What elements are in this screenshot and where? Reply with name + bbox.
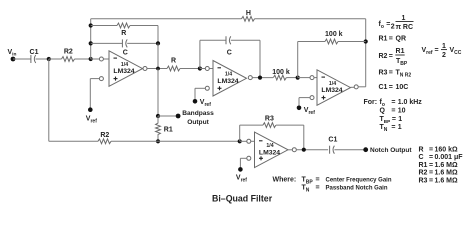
resistor R1 <box>156 123 161 135</box>
wire U3 plus input stub <box>299 97 310 99</box>
svg-text:=: = <box>389 53 393 60</box>
capacitor C (U2 feedback) <box>225 36 227 44</box>
op-amp U4 1/4 LM324 <box>255 132 289 168</box>
wire bubble to U3 edge <box>314 77 317 79</box>
resistor R3 (U4 feedback) <box>263 123 276 128</box>
resistor R2 (input) <box>62 57 75 62</box>
svg-text:R2: R2 <box>379 53 388 60</box>
wire C1 to node A <box>36 58 49 60</box>
node R-feedback left junction <box>89 23 93 27</box>
svg-text:LM324: LM324 <box>259 149 280 156</box>
wire C1 to notch terminal <box>334 149 363 151</box>
U3 inverting input bubble <box>310 76 314 80</box>
svg-text:Output: Output <box>187 119 209 126</box>
node Vref terminal (U1) <box>88 107 93 112</box>
U1 non-inverting input bubble <box>99 77 103 81</box>
formula R2 fraction bar <box>395 54 404 56</box>
op-amp U1 1/4 LM324 <box>109 51 143 87</box>
wire 100k to U3 minus junction <box>286 77 297 79</box>
node C-feedback right junction <box>156 41 160 45</box>
svg-text:=: = <box>429 146 433 153</box>
node Vin terminal <box>11 57 16 62</box>
wire bandpass tap stub <box>158 115 176 117</box>
svg-text:For:: For: <box>364 99 378 106</box>
wire H rail down to U3 output <box>365 19 367 87</box>
wire U2 feedback top left <box>200 39 226 41</box>
U2 non-inverting input bubble <box>205 86 209 90</box>
svg-text:=: = <box>316 184 320 191</box>
svg-text:R2: R2 <box>419 170 428 177</box>
wire U2 output to 100k <box>252 77 273 79</box>
wire bubble to U1 edge <box>104 58 110 60</box>
wire U3 feedback top right <box>338 41 366 43</box>
op-amp U2 1/4 LM324 <box>213 61 247 97</box>
resistor R (U1 feedback) <box>117 23 130 28</box>
wire R2 to node B <box>75 58 91 60</box>
svg-text:10: 10 <box>398 107 406 114</box>
svg-text:R1: R1 <box>379 35 388 42</box>
svg-text:R1: R1 <box>396 48 405 55</box>
svg-text:1.0 kHz: 1.0 kHz <box>398 99 423 106</box>
node U4 inverting junction <box>238 139 242 143</box>
wire bandpass tap to R1 <box>157 116 159 123</box>
wire R-feedback left lead <box>91 25 117 27</box>
svg-text:160 kΩ: 160 kΩ <box>435 146 459 153</box>
svg-text:R1: R1 <box>164 127 173 134</box>
svg-text:=: = <box>316 176 320 183</box>
svg-text:=: = <box>391 99 395 106</box>
wire down to Vref (U2) <box>194 88 196 101</box>
svg-text:R3: R3 <box>265 116 274 123</box>
node U3 inverting junction <box>296 76 300 80</box>
capacitor C1 (input) <box>30 55 32 63</box>
svg-text:Bandpass: Bandpass <box>182 110 214 117</box>
resistor R2 (bottom rail) <box>98 139 111 144</box>
node Vref terminal (U2) <box>193 99 198 104</box>
svg-text:Notch Output: Notch Output <box>370 147 412 154</box>
node Vref terminal (U3) <box>297 106 302 111</box>
svg-text:C: C <box>227 50 232 57</box>
wire U3 output stub <box>351 86 355 88</box>
svg-text:=: = <box>429 154 433 161</box>
U3 output bubble <box>354 85 358 89</box>
wire R3 feedback top right <box>276 124 304 126</box>
wire U3 feedback left vertical <box>297 42 299 78</box>
svg-text:100 k: 100 k <box>325 31 343 38</box>
wire U4 plus input stub <box>240 157 246 159</box>
svg-text:R3: R3 <box>379 70 388 77</box>
node 100k-feedback right junction <box>364 39 368 43</box>
wire U2 feedback top right <box>231 39 260 41</box>
node Notch Output terminal <box>363 147 368 152</box>
U1 output bubble <box>143 67 147 71</box>
U2 inverting input bubble <box>205 67 209 71</box>
svg-text:C1: C1 <box>30 49 39 56</box>
node U2 output junction <box>258 76 262 80</box>
svg-text:1.6 MΩ: 1.6 MΩ <box>435 170 459 177</box>
node bandpass tap junction <box>156 114 160 118</box>
wire C-feedback right lead <box>127 42 158 44</box>
svg-text:QR: QR <box>396 35 407 42</box>
wire U4 output stub <box>288 149 292 151</box>
svg-text:=: = <box>389 70 393 77</box>
node Vref terminal (U4) <box>238 167 243 172</box>
wire junction to U2 bubble <box>200 68 205 70</box>
svg-text:100 k: 100 k <box>272 69 290 76</box>
svg-text:LM324: LM324 <box>217 78 238 85</box>
svg-text:LM324: LM324 <box>321 87 342 94</box>
wire H rail right segment <box>255 18 366 20</box>
wire R3 feedback right vertical <box>303 125 305 150</box>
wire U1 output to R <box>147 68 167 70</box>
wire U4 output to C1 <box>296 149 328 151</box>
svg-text:1/4: 1/4 <box>121 62 128 68</box>
wire down to Vref (U4) <box>239 158 241 169</box>
formula Vref fraction bar <box>441 49 447 51</box>
svg-text:2: 2 <box>391 23 395 30</box>
resistor 100k (series) <box>273 75 286 80</box>
wire C-feedback left lead <box>91 42 123 44</box>
node U4 output junction <box>302 148 306 152</box>
node C-feedback left junction <box>89 41 93 45</box>
wire Vin to C1 <box>13 58 31 60</box>
node U2 inverting junction <box>198 66 202 70</box>
wire junction to U4 bubble <box>240 140 247 142</box>
svg-text:1: 1 <box>402 15 406 22</box>
svg-text:C1: C1 <box>328 136 337 143</box>
svg-text:R1: R1 <box>419 162 428 169</box>
wire R3 feedback top left <box>240 124 263 126</box>
U2 output bubble <box>248 76 252 80</box>
wire down to Vref (U3) <box>298 98 300 108</box>
svg-text:Passband Notch Gain: Passband Notch Gain <box>326 185 388 191</box>
svg-text:=: = <box>392 116 396 123</box>
capacitor C1 (notch output) <box>329 146 331 154</box>
wire R3 feedback left vertical <box>239 125 241 141</box>
wire node B to U1 minus bubble <box>91 58 100 60</box>
svg-text:=: = <box>391 124 395 131</box>
svg-text:R: R <box>171 57 176 64</box>
wire H rail left segment <box>91 18 242 20</box>
U4 non-inverting input bubble <box>247 156 251 160</box>
wire R-feedback right lead <box>130 25 158 27</box>
svg-text:0.001 μF: 0.001 μF <box>435 154 464 161</box>
wire U1 plus input stub <box>90 78 99 80</box>
svg-text:C1: C1 <box>379 84 388 91</box>
node R1 bottom junction <box>156 139 160 143</box>
svg-text:1/4: 1/4 <box>266 143 273 149</box>
resistor 100k (U3 feedback) <box>325 39 338 44</box>
wire bottom rail left of R2 <box>49 140 98 142</box>
svg-text:1: 1 <box>398 124 402 131</box>
svg-text:1/4: 1/4 <box>329 81 336 87</box>
wire bubble to U4 edge <box>251 140 255 142</box>
svg-text:Q: Q <box>380 107 386 114</box>
svg-text:=: = <box>435 47 439 54</box>
svg-text:2: 2 <box>442 52 446 59</box>
svg-text:C: C <box>419 154 424 161</box>
svg-text:=: = <box>386 21 390 28</box>
node B junction (U1 inverting input) <box>89 57 93 61</box>
svg-text:10C: 10C <box>396 84 409 91</box>
wire feedback vertical to U1 output <box>157 43 159 68</box>
wire U1 output down to bandpass tap <box>157 69 159 117</box>
wire bubble to U2 edge <box>209 68 213 70</box>
wire U2 plus input stub <box>195 87 205 89</box>
wire node A down to bottom rail <box>48 59 50 141</box>
svg-text:=: = <box>429 170 433 177</box>
wire U3 output to right vertical <box>358 86 365 88</box>
wire R1 to bottom rail <box>157 134 159 141</box>
svg-text:Center Frequency Gain: Center Frequency Gain <box>326 177 392 183</box>
wire U2 feedback left vertical <box>199 40 201 68</box>
node A junction <box>47 57 51 61</box>
U4 output bubble <box>292 148 296 152</box>
U3 non-inverting input bubble <box>310 96 314 100</box>
svg-text:C: C <box>123 50 128 57</box>
node Bandpass Output terminal <box>176 114 181 119</box>
svg-text:1.6 MΩ: 1.6 MΩ <box>435 162 459 169</box>
svg-text:=: = <box>391 107 395 114</box>
wire node B up to H rail <box>90 19 92 59</box>
svg-text:R3: R3 <box>419 177 428 184</box>
svg-text:LM324: LM324 <box>113 68 134 75</box>
svg-text:1: 1 <box>442 43 446 50</box>
wire bottom rail R1 node to U4 <box>158 140 240 142</box>
node U1 output junction <box>156 67 160 71</box>
svg-text:R: R <box>419 146 424 153</box>
svg-text:1: 1 <box>398 116 402 123</box>
svg-text:=: = <box>389 84 393 91</box>
capacitor C (U1 feedback) <box>121 39 123 47</box>
wire R to U2 minus junction <box>180 68 200 70</box>
wire down to Vref (U1) <box>89 79 91 110</box>
wire junction to U3 bubble <box>298 77 310 79</box>
resistor R (series U1-U2) <box>167 66 180 71</box>
svg-text:=: = <box>389 35 393 42</box>
svg-text:=: = <box>429 177 433 184</box>
wire bottom rail R2 to R1 node <box>111 140 158 142</box>
svg-text:R2: R2 <box>100 132 109 139</box>
svg-text:=: = <box>429 162 433 169</box>
wire node A to R2 <box>49 58 62 60</box>
svg-text:R2: R2 <box>64 48 73 55</box>
wire U2 feedback right vertical <box>259 40 261 77</box>
U1 inverting input bubble <box>99 57 103 61</box>
svg-text:Where:: Where: <box>273 176 297 183</box>
wire R-feedback corner down <box>157 26 159 44</box>
op-amp U3 1/4 LM324 <box>317 70 351 106</box>
svg-text:1.6 MΩ: 1.6 MΩ <box>435 177 459 184</box>
svg-text:H: H <box>246 10 251 17</box>
svg-text:π RC: π RC <box>396 24 413 31</box>
wire U3 feedback top left <box>298 41 325 43</box>
svg-text:R: R <box>121 30 126 37</box>
formula f0 fraction bar <box>396 21 414 23</box>
svg-text:Bi–Quad Filter: Bi–Quad Filter <box>212 193 273 203</box>
resistor H <box>242 16 255 21</box>
svg-text:1/4: 1/4 <box>225 72 232 78</box>
U4 inverting input bubble <box>247 139 251 143</box>
